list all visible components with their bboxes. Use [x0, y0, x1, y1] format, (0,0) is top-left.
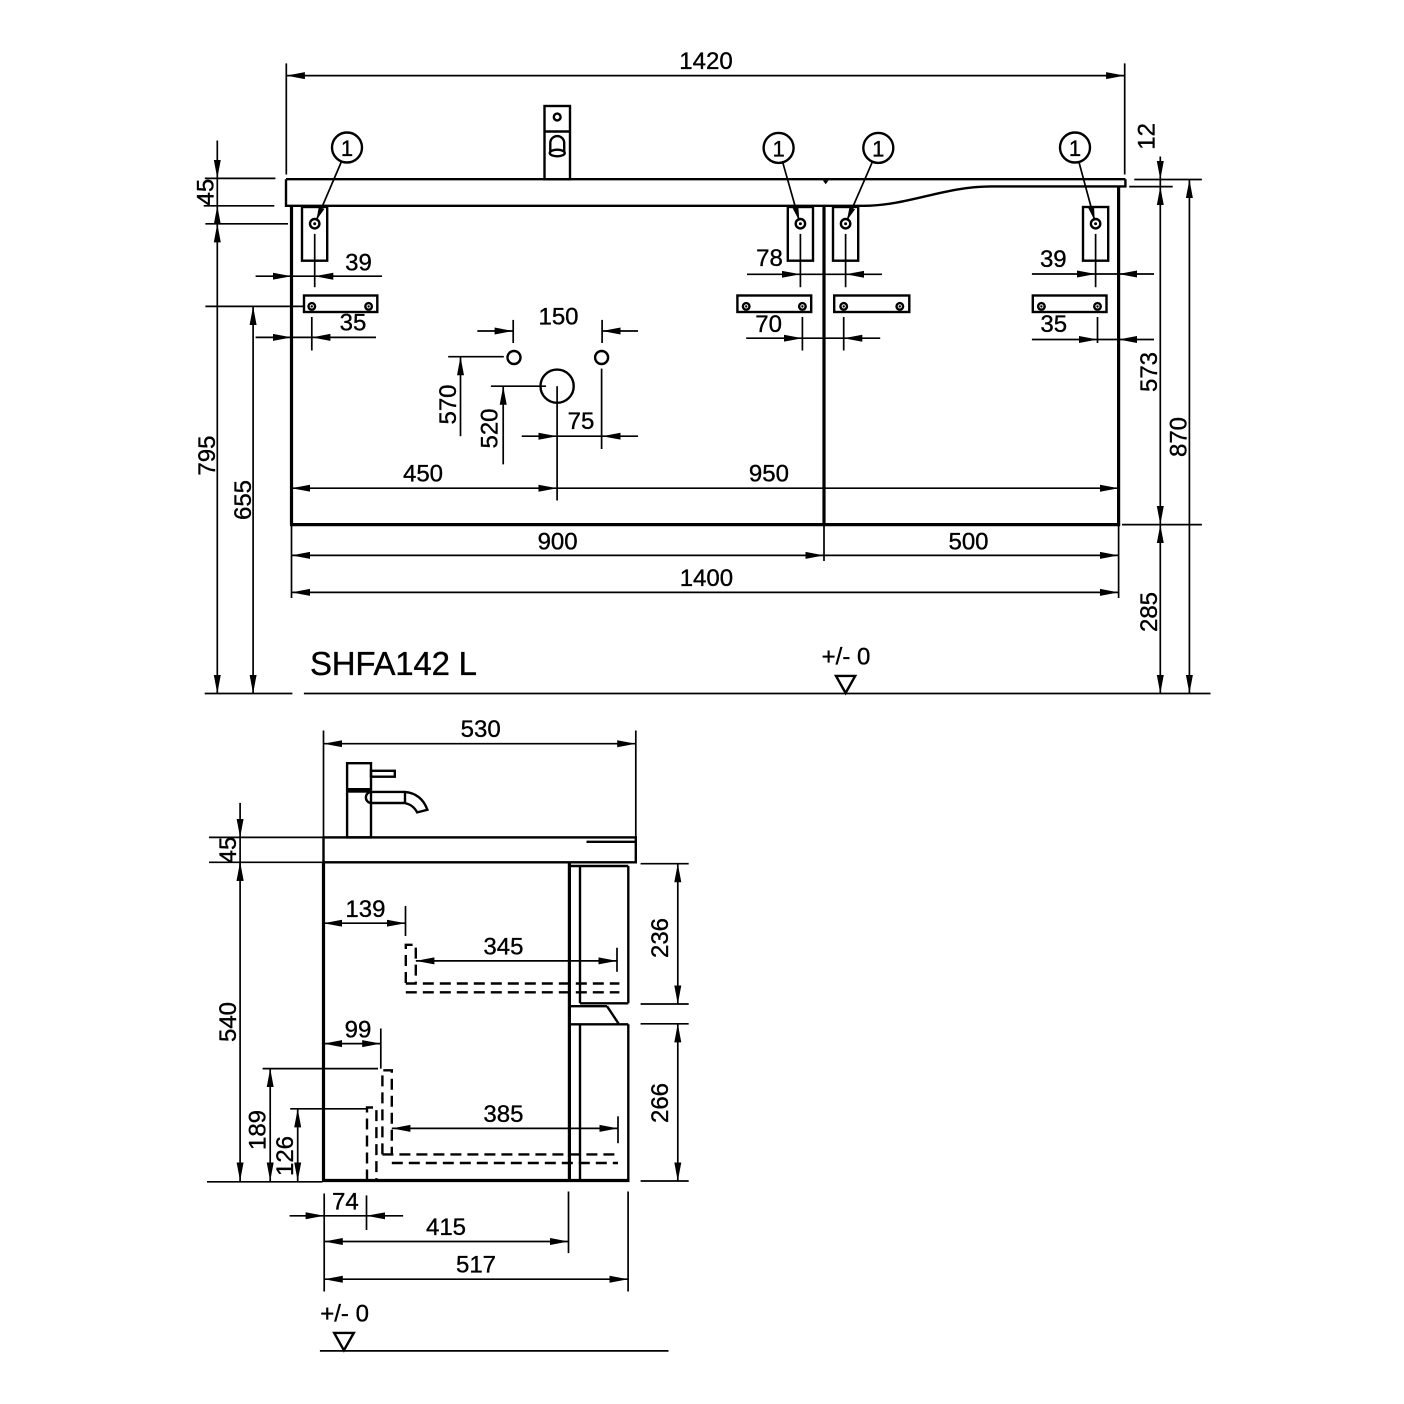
svg-text:570: 570: [435, 384, 462, 424]
dim 345: [416, 933, 617, 971]
svg-text:75: 75: [568, 408, 595, 435]
svg-text:1420: 1420: [679, 48, 732, 75]
mounting rail R3: [834, 296, 909, 313]
svg-text:870: 870: [1166, 417, 1193, 457]
centerline under B3 hole: [845, 234, 847, 287]
svg-text:12: 12: [1134, 123, 1161, 150]
wall bracket B3: [833, 207, 858, 261]
seam notch on countertop top edge: [823, 180, 829, 184]
centerline under R1 left hole: [311, 317, 313, 351]
dim 139: [324, 896, 406, 936]
centerline under R4 right hole: [1097, 317, 1099, 343]
svg-text:39: 39: [1040, 246, 1067, 273]
dim 70 (center rails): [746, 311, 880, 338]
svg-text:45: 45: [192, 179, 219, 206]
svg-text:236: 236: [647, 918, 674, 958]
svg-text:1: 1: [1069, 136, 1081, 161]
svg-text:1: 1: [872, 136, 884, 161]
callout circle 1 (B4): [1060, 133, 1095, 221]
svg-text:450: 450: [403, 460, 443, 487]
dim 415: [324, 1192, 568, 1254]
cabinet body (front view): [290, 187, 1120, 524]
datum line (side view): [320, 1350, 669, 1352]
svg-text:+/- 0: +/- 0: [320, 1300, 369, 1327]
carcass front edge: [568, 862, 571, 1180]
datum line (front view): [304, 693, 1211, 695]
svg-text:345: 345: [483, 933, 523, 960]
svg-text:35: 35: [340, 309, 367, 336]
cabinet right edge extension below: [1118, 525, 1120, 598]
cabinet left edge extension below: [291, 525, 293, 598]
dim 39 right: [1032, 246, 1154, 274]
svg-text:385: 385: [483, 1101, 523, 1128]
dim 74: [290, 1188, 404, 1291]
dim 570 (tap hole height): [435, 357, 504, 437]
dim 530: [324, 716, 636, 837]
dim 45 left (countertop thickness): [192, 141, 275, 225]
dim 573 (right): [1136, 187, 1163, 525]
svg-text:266: 266: [647, 1083, 674, 1123]
svg-text:70: 70: [755, 311, 782, 338]
centerline under B4 hole: [1095, 234, 1097, 287]
cabinet side panel: [322, 862, 630, 1180]
mounting rail R1: [304, 296, 377, 313]
svg-text:655: 655: [230, 480, 257, 520]
dim 500: [824, 528, 1119, 555]
centerline under R2 right hole: [801, 317, 803, 351]
divider extension below: [823, 525, 825, 561]
dim 540 (cabinet height): [207, 862, 323, 1182]
dim 75 (drain to tap hole): [522, 408, 638, 436]
lower drawer runner rails (hidden): [382, 1153, 618, 1155]
dim 126: [272, 1109, 366, 1181]
dim 870 (right overall): [1166, 180, 1193, 694]
upper drawer runner socket (hidden): [406, 945, 416, 983]
callout circle 1 (B1): [316, 133, 362, 221]
svg-text:500: 500: [948, 528, 988, 555]
centerline under B2 hole: [799, 234, 801, 287]
svg-text:+/- 0: +/- 0: [822, 644, 871, 671]
svg-text:573: 573: [1136, 352, 1163, 392]
dim 900: [292, 528, 825, 555]
faucet (side view): [347, 763, 427, 837]
lower drawer front (side): [569, 1024, 628, 1180]
dim 285 (right): [1122, 525, 1202, 694]
svg-text:99: 99: [345, 1017, 372, 1044]
dim 385: [392, 1101, 618, 1143]
wall bracket B4: [1083, 207, 1108, 261]
dim 266 (lower drawer front): [641, 1024, 689, 1181]
mounting rail R4: [1033, 296, 1107, 313]
dim 655 (left, rail level to datum): [205, 306, 303, 693]
dim 950: [557, 460, 1119, 488]
upper drawer front (side): [569, 866, 628, 1003]
dim 39 left: [256, 249, 382, 276]
svg-text:1: 1: [341, 136, 353, 161]
datum triangle (side view): [334, 1333, 354, 1350]
svg-text:78: 78: [756, 245, 783, 272]
dim 35 right: [1032, 311, 1154, 340]
drain centerline: [556, 386, 558, 500]
wall bracket B1: [302, 207, 327, 261]
tap hole left: [508, 351, 521, 364]
svg-text:900: 900: [538, 528, 578, 555]
centerline under B1 hole: [314, 234, 316, 287]
lower drawer runner socket (hidden): [382, 1070, 391, 1154]
svg-text:285: 285: [1136, 592, 1163, 632]
dim 150 (tap holes): [477, 303, 638, 343]
svg-text:150: 150: [538, 303, 578, 330]
tap hole right: [595, 351, 608, 364]
upper drawer runner rails (hidden): [406, 982, 620, 984]
callout circle 1 (B2): [764, 133, 800, 221]
dim 1400: [292, 565, 1119, 593]
dim 45 (side countertop): [209, 803, 323, 881]
svg-text:SHFA142 L: SHFA142 L: [310, 645, 477, 682]
grip notch between drawers: [569, 1006, 618, 1023]
dim 795 (left, hole level to datum): [194, 224, 288, 694]
svg-text:530: 530: [461, 716, 501, 743]
svg-text:950: 950: [749, 460, 789, 487]
datum triangle (front view): [836, 676, 855, 693]
dim 189: [245, 1069, 379, 1181]
dim 1420: [286, 48, 1124, 175]
basin drain hole: [541, 370, 574, 403]
door divider: [822, 207, 825, 525]
dim 450: [292, 460, 558, 488]
dim 236 (upper drawer front): [641, 864, 689, 1004]
callout circle 1 (B3): [847, 133, 893, 221]
dim 520 (drain height): [477, 386, 547, 464]
washbasin countertop (front view): [286, 179, 1125, 206]
svg-text:74: 74: [332, 1188, 359, 1215]
svg-text:1400: 1400: [680, 565, 733, 592]
svg-text:45: 45: [215, 837, 242, 864]
centerline under R3 left hole: [843, 317, 845, 351]
datum tick left: [205, 693, 293, 695]
wall bracket B2: [788, 207, 813, 261]
svg-text:35: 35: [1040, 311, 1067, 338]
dim 99: [324, 1017, 381, 1069]
faucet (front view): [545, 106, 571, 179]
svg-text:189: 189: [245, 1110, 272, 1150]
lower drawer back profile (hidden): [367, 1108, 376, 1181]
mounting rail R2: [737, 296, 811, 313]
svg-text:39: 39: [345, 249, 372, 276]
dim 12 (right countertop edge): [1129, 123, 1202, 187]
svg-text:517: 517: [456, 1252, 496, 1279]
svg-text:520: 520: [477, 408, 504, 448]
svg-text:795: 795: [194, 436, 221, 476]
dim 517: [324, 1192, 628, 1292]
svg-text:126: 126: [272, 1136, 299, 1176]
svg-text:139: 139: [345, 896, 385, 923]
tap hole right centerline: [601, 369, 603, 449]
dim 78 (center brackets): [747, 245, 882, 275]
countertop (side view): [324, 837, 636, 862]
dim 35 left: [256, 309, 376, 337]
svg-text:415: 415: [426, 1214, 466, 1241]
svg-text:1: 1: [772, 136, 784, 161]
svg-text:540: 540: [215, 1002, 242, 1042]
